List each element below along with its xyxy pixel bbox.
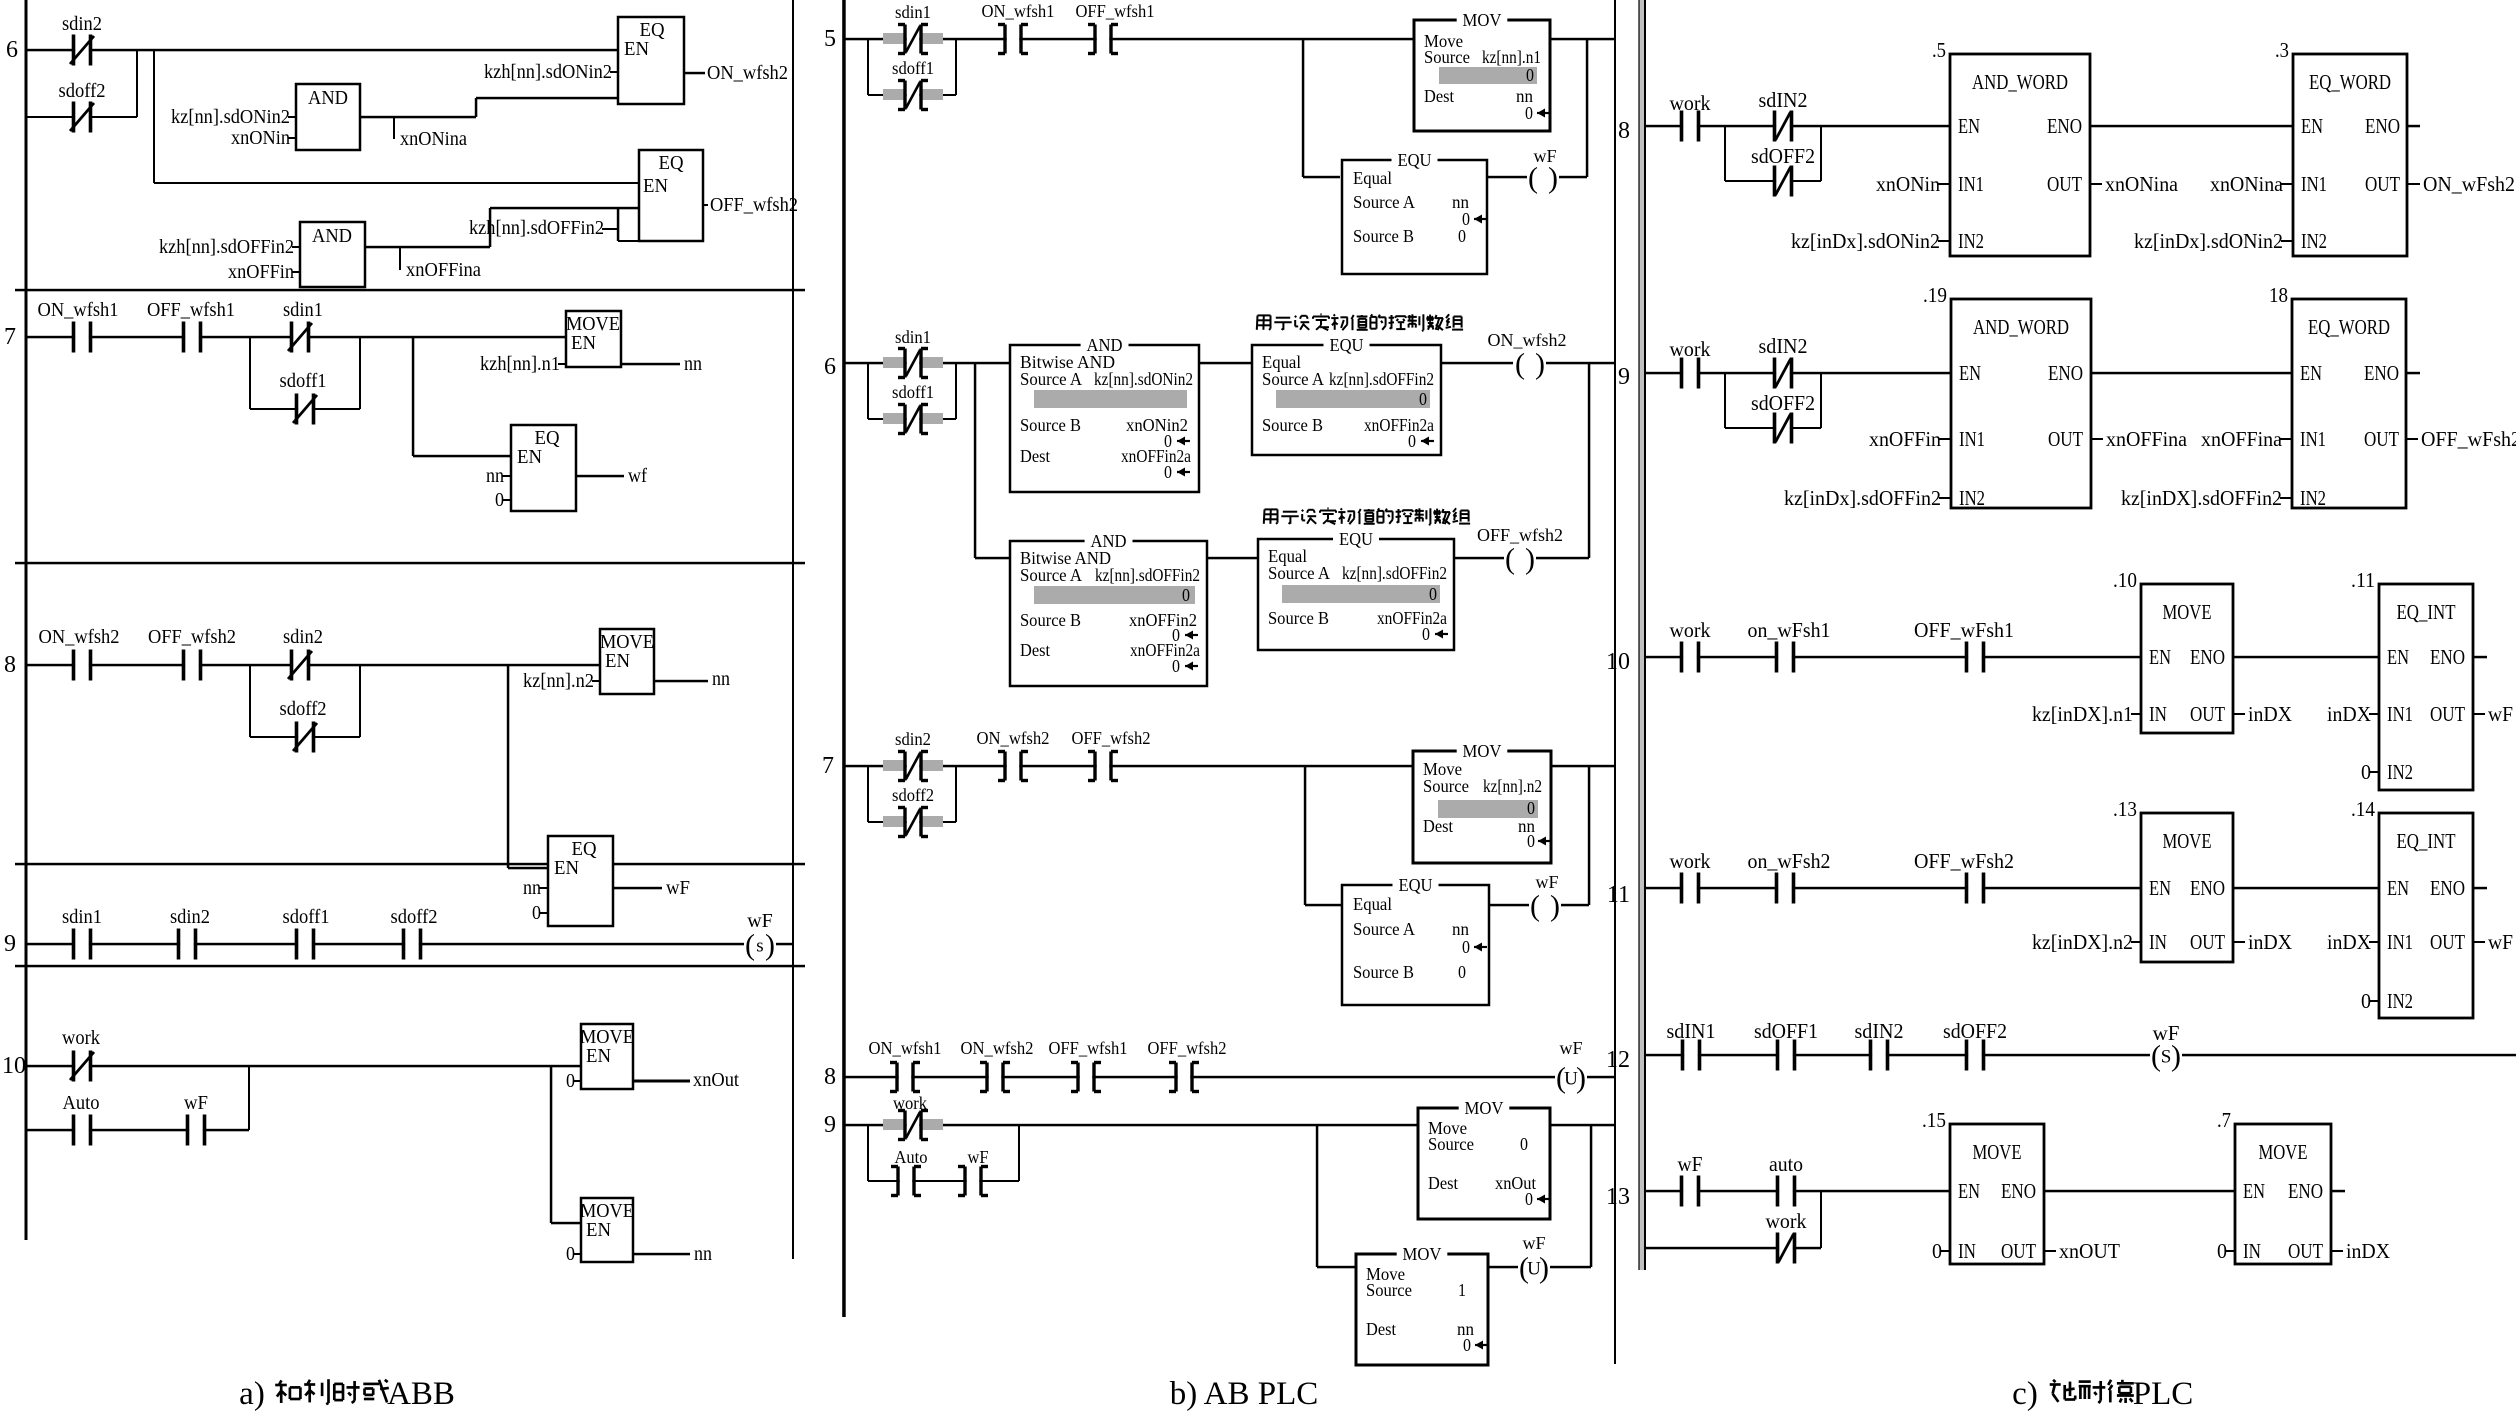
svg-text:OUT: OUT xyxy=(2430,930,2465,954)
svg-text:OUT: OUT xyxy=(2190,930,2225,954)
svg-text:Dest: Dest xyxy=(1020,640,1050,660)
svg-text:.11: .11 xyxy=(2351,568,2375,592)
svg-text:kz[inDX].n1: kz[inDX].n1 xyxy=(2032,702,2133,726)
svg-text:kz[inDX].sdOFFin2: kz[inDX].sdOFFin2 xyxy=(2121,486,2282,510)
svg-text:sdOFF1: sdOFF1 xyxy=(1754,1019,1818,1043)
svg-text:9: 9 xyxy=(824,1112,836,1138)
svg-text:a): a) xyxy=(239,1376,265,1411)
svg-text:U: U xyxy=(1527,1259,1541,1280)
svg-text:sdoff1: sdoff1 xyxy=(280,370,327,392)
svg-text:EN: EN xyxy=(586,1219,611,1241)
svg-text:9: 9 xyxy=(1618,364,1630,390)
svg-text:ON_wfsh1: ON_wfsh1 xyxy=(869,1038,942,1058)
svg-text:): ) xyxy=(1550,890,1560,923)
svg-text:Dest: Dest xyxy=(1424,86,1454,106)
svg-text:sdoff2: sdoff2 xyxy=(59,80,106,102)
svg-text:MOV: MOV xyxy=(1463,10,1502,30)
svg-text:(: ( xyxy=(1530,890,1540,923)
svg-text:): ) xyxy=(1535,348,1545,381)
svg-text:EN: EN xyxy=(2149,645,2171,669)
svg-text:wF: wF xyxy=(666,877,690,899)
svg-text:ON_wfsh1: ON_wfsh1 xyxy=(982,1,1055,21)
svg-text:sdin2: sdin2 xyxy=(283,626,323,648)
svg-text:xnOFFin2a: xnOFFin2a xyxy=(1130,640,1200,660)
svg-text:18: 18 xyxy=(2269,283,2288,307)
svg-text:(: ( xyxy=(1505,543,1515,576)
svg-text:wF: wF xyxy=(1533,146,1556,166)
svg-text:IN1: IN1 xyxy=(1958,172,1984,196)
svg-text:IN1: IN1 xyxy=(2300,427,2326,451)
svg-text:wF: wF xyxy=(968,1147,989,1167)
svg-text:EQ_INT: EQ_INT xyxy=(2397,600,2456,624)
svg-text:MOVE: MOVE xyxy=(2259,1140,2308,1164)
svg-text:Source A: Source A xyxy=(1020,369,1082,389)
svg-text:OUT: OUT xyxy=(2047,172,2082,196)
svg-text:0: 0 xyxy=(1525,103,1533,123)
svg-text:ENO: ENO xyxy=(2365,114,2400,138)
svg-text:nn: nn xyxy=(486,465,504,487)
svg-text:AND: AND xyxy=(312,225,352,247)
svg-text:OFF_wfsh2: OFF_wfsh2 xyxy=(1072,728,1151,748)
svg-text:1: 1 xyxy=(1458,1280,1466,1300)
svg-text:IN2: IN2 xyxy=(2387,760,2413,784)
svg-text:Dest: Dest xyxy=(1366,1319,1396,1339)
svg-text:ENO: ENO xyxy=(2364,361,2399,385)
svg-text:kz[nn].n2: kz[nn].n2 xyxy=(1483,776,1542,796)
svg-text:OFF_wFsh2: OFF_wFsh2 xyxy=(1914,849,2014,873)
svg-text:wF: wF xyxy=(1559,1038,1582,1058)
svg-text:sdin1: sdin1 xyxy=(62,906,102,928)
svg-text:ENO: ENO xyxy=(2047,114,2082,138)
svg-text:(: ( xyxy=(745,929,755,962)
svg-text:inDX: inDX xyxy=(2248,702,2292,726)
svg-text:9: 9 xyxy=(4,931,16,957)
svg-text:Source A: Source A xyxy=(1268,563,1330,583)
svg-text:Source B: Source B xyxy=(1020,610,1081,630)
svg-text:sdoff1: sdoff1 xyxy=(892,58,934,78)
svg-text:Equal: Equal xyxy=(1353,168,1392,188)
svg-text:sdIN2: sdIN2 xyxy=(1759,88,1808,112)
svg-text:ENO: ENO xyxy=(2430,876,2465,900)
svg-text:wf: wf xyxy=(628,465,647,487)
svg-text:IN: IN xyxy=(2149,702,2167,726)
svg-text:IN: IN xyxy=(2243,1239,2261,1263)
svg-text:OUT: OUT xyxy=(2365,172,2400,196)
svg-text:wF: wF xyxy=(747,910,773,932)
svg-text:EN: EN xyxy=(1958,114,1980,138)
svg-text:kz[inDx].sdOFFin2: kz[inDx].sdOFFin2 xyxy=(1784,486,1941,510)
svg-text:0: 0 xyxy=(1462,937,1470,957)
svg-text:Auto: Auto xyxy=(895,1147,928,1167)
svg-text:PLC: PLC xyxy=(2133,1376,2194,1411)
svg-text:10: 10 xyxy=(2,1053,26,1079)
svg-text:xnONina: xnONina xyxy=(2105,172,2179,196)
svg-text:0: 0 xyxy=(1525,1189,1533,1209)
svg-text:EN: EN xyxy=(2301,114,2323,138)
svg-text:xnOFFin2a: xnOFFin2a xyxy=(1364,415,1434,435)
svg-text:0: 0 xyxy=(1527,831,1535,851)
svg-text:kzh[nn].n1: kzh[nn].n1 xyxy=(480,353,560,375)
svg-text:sdin2: sdin2 xyxy=(62,13,102,35)
svg-text:xnOFFina: xnOFFina xyxy=(2201,427,2283,451)
svg-text:0: 0 xyxy=(1172,656,1180,676)
svg-text:ON_wfsh2: ON_wfsh2 xyxy=(1488,330,1567,350)
svg-text:kz[nn].sdOFFin2: kz[nn].sdOFFin2 xyxy=(1095,565,1200,585)
svg-text:0: 0 xyxy=(1463,1335,1471,1355)
svg-text:IN1: IN1 xyxy=(2301,172,2327,196)
svg-text:xnOFFin: xnOFFin xyxy=(228,261,294,283)
svg-text:sdIN2: sdIN2 xyxy=(1759,334,1808,358)
svg-text:Source B: Source B xyxy=(1262,415,1323,435)
svg-text:EN: EN xyxy=(624,38,649,60)
svg-text:ENO: ENO xyxy=(2288,1179,2323,1203)
svg-text:auto: auto xyxy=(1769,1152,1803,1176)
svg-text:nn: nn xyxy=(694,1243,712,1265)
svg-text:.14: .14 xyxy=(2351,797,2375,821)
svg-text:on_wFsh2: on_wFsh2 xyxy=(1748,849,1831,873)
svg-text:xnONina: xnONina xyxy=(400,128,467,150)
svg-text:kz[inDx].sdONin2: kz[inDx].sdONin2 xyxy=(2134,229,2283,253)
svg-text:6: 6 xyxy=(6,37,18,63)
svg-text:wF: wF xyxy=(2488,930,2513,954)
svg-text:Dest: Dest xyxy=(1020,446,1050,466)
svg-text:work: work xyxy=(1670,337,1711,361)
svg-text:EQ_WORD: EQ_WORD xyxy=(2308,315,2390,339)
svg-text:EN: EN xyxy=(2149,876,2171,900)
svg-text:OFF_wfsh2: OFF_wfsh2 xyxy=(148,626,236,648)
svg-text:sdIN2: sdIN2 xyxy=(1855,1019,1904,1043)
svg-text:ON_wfsh2: ON_wfsh2 xyxy=(977,728,1050,748)
svg-text:nn: nn xyxy=(712,668,730,690)
svg-text:.15: .15 xyxy=(1922,1108,1946,1132)
svg-text:ENO: ENO xyxy=(2001,1179,2036,1203)
svg-text:EN: EN xyxy=(1958,1179,1980,1203)
svg-text:Source: Source xyxy=(1366,1280,1412,1300)
svg-text:xnONin: xnONin xyxy=(231,127,290,149)
svg-text:): ) xyxy=(1525,543,1535,576)
svg-text:Source B: Source B xyxy=(1353,962,1414,982)
svg-text:OFF_wFsh1: OFF_wFsh1 xyxy=(1914,618,2014,642)
svg-text:5: 5 xyxy=(824,26,836,52)
svg-text:inDX: inDX xyxy=(2248,930,2292,954)
svg-text:xnOut: xnOut xyxy=(693,1069,739,1091)
svg-text:OFF_wfsh2: OFF_wfsh2 xyxy=(1148,1038,1227,1058)
svg-text:IN2: IN2 xyxy=(1959,486,1985,510)
svg-text:sdoff2: sdoff2 xyxy=(391,906,438,928)
svg-text:xnOFFina: xnOFFina xyxy=(406,259,481,281)
svg-text:xnOFFin: xnOFFin xyxy=(1869,427,1941,451)
svg-text:kz[nn].sdOFFin2: kz[nn].sdOFFin2 xyxy=(1342,563,1447,583)
svg-text:Source: Source xyxy=(1423,776,1469,796)
svg-text:sdOFF2: sdOFF2 xyxy=(1943,1019,2007,1043)
svg-text:xnOFFin2a: xnOFFin2a xyxy=(1377,608,1447,628)
svg-text:0: 0 xyxy=(1526,65,1534,85)
svg-text:sdoff2: sdoff2 xyxy=(280,698,327,720)
svg-text:EN: EN xyxy=(2387,645,2409,669)
svg-text:work: work xyxy=(1670,618,1711,642)
svg-text:xnOFFina: xnOFFina xyxy=(2106,427,2188,451)
svg-text:EQU: EQU xyxy=(1398,150,1432,170)
svg-text:on_wFsh1: on_wFsh1 xyxy=(1748,618,1831,642)
svg-text:OFF_wfsh1: OFF_wfsh1 xyxy=(1049,1038,1128,1058)
svg-text:kz[nn].n2: kz[nn].n2 xyxy=(523,670,594,692)
svg-text:EN: EN xyxy=(605,650,630,672)
svg-text:work: work xyxy=(893,1093,927,1113)
svg-text:EQU: EQU xyxy=(1330,335,1364,355)
svg-text:8: 8 xyxy=(4,652,16,678)
svg-text:sdIN1: sdIN1 xyxy=(1667,1019,1716,1043)
svg-text:sdoff1: sdoff1 xyxy=(283,906,330,928)
svg-text:Source: Source xyxy=(1428,1134,1474,1154)
svg-text:Auto: Auto xyxy=(63,1092,100,1114)
svg-text:ON_wfsh1: ON_wfsh1 xyxy=(38,299,119,321)
svg-text:EN: EN xyxy=(1959,361,1981,385)
svg-text:8: 8 xyxy=(1618,118,1630,144)
svg-text:OFF_wfsh1: OFF_wfsh1 xyxy=(147,299,235,321)
svg-text:OUT: OUT xyxy=(2190,702,2225,726)
svg-text:b) AB PLC: b) AB PLC xyxy=(1170,1376,1319,1411)
svg-text:nn: nn xyxy=(684,353,702,375)
svg-text:EQU: EQU xyxy=(1399,875,1433,895)
svg-text:11: 11 xyxy=(1607,882,1630,908)
svg-text:kz[inDx].sdONin2: kz[inDx].sdONin2 xyxy=(1791,229,1940,253)
svg-text:MOVE: MOVE xyxy=(2163,829,2212,853)
svg-text:0: 0 xyxy=(1419,389,1427,409)
svg-text:EN: EN xyxy=(643,175,668,197)
svg-text:kz[inDX].n2: kz[inDX].n2 xyxy=(2032,930,2133,954)
svg-text:(: ( xyxy=(1515,348,1525,381)
svg-text:EN: EN xyxy=(517,446,542,468)
svg-text:IN: IN xyxy=(1958,1239,1976,1263)
svg-text:EQU: EQU xyxy=(1339,529,1373,549)
svg-text:ABB: ABB xyxy=(387,1376,455,1411)
svg-text:0: 0 xyxy=(1182,585,1190,605)
svg-text:xnOUT: xnOUT xyxy=(2059,1239,2120,1263)
svg-text:EQ: EQ xyxy=(659,152,685,174)
svg-text:.3: .3 xyxy=(2275,38,2289,62)
svg-text:ON_wfsh2: ON_wfsh2 xyxy=(39,626,120,648)
svg-text:EN: EN xyxy=(571,332,596,354)
svg-text:IN: IN xyxy=(2149,930,2167,954)
svg-text:kzh[nn].sdOFFin2: kzh[nn].sdOFFin2 xyxy=(159,236,294,258)
svg-text:OFF_wfsh1: OFF_wfsh1 xyxy=(1076,1,1155,21)
svg-text:0: 0 xyxy=(1458,226,1466,246)
svg-text:Dest: Dest xyxy=(1423,816,1453,836)
svg-text:EN: EN xyxy=(586,1045,611,1067)
svg-text:wF: wF xyxy=(2488,702,2513,726)
svg-text:ON_wFsh2: ON_wFsh2 xyxy=(2423,172,2515,196)
svg-text:MOV: MOV xyxy=(1403,1244,1442,1264)
svg-text:inDX: inDX xyxy=(2327,702,2371,726)
svg-text:U: U xyxy=(1564,1069,1578,1090)
svg-text:Source A: Source A xyxy=(1262,369,1324,389)
svg-text:work: work xyxy=(1766,1209,1807,1233)
svg-text:OUT: OUT xyxy=(2001,1239,2036,1263)
svg-text:0: 0 xyxy=(1422,624,1430,644)
svg-text:Source B: Source B xyxy=(1353,226,1414,246)
svg-text:sdOFF2: sdOFF2 xyxy=(1751,391,1815,415)
svg-text:ENO: ENO xyxy=(2048,361,2083,385)
svg-text:Source A: Source A xyxy=(1020,565,1082,585)
svg-text:13: 13 xyxy=(1606,1184,1630,1210)
svg-text:MOV: MOV xyxy=(1465,1098,1504,1118)
svg-text:0: 0 xyxy=(1429,584,1437,604)
svg-text:7: 7 xyxy=(822,753,834,779)
svg-text:sdin2: sdin2 xyxy=(170,906,210,928)
svg-text:0: 0 xyxy=(1520,1134,1528,1154)
svg-text:ON_wfsh2: ON_wfsh2 xyxy=(707,62,788,84)
svg-text:EQ_INT: EQ_INT xyxy=(2397,829,2456,853)
svg-text:xnONin2: xnONin2 xyxy=(1126,415,1188,435)
svg-text:sdoff2: sdoff2 xyxy=(892,785,934,805)
svg-text:IN2: IN2 xyxy=(2301,229,2327,253)
svg-text:work: work xyxy=(62,1027,100,1049)
svg-text:nn: nn xyxy=(523,877,541,899)
svg-text:OFF_wfsh2: OFF_wfsh2 xyxy=(710,194,798,216)
svg-text:IN1: IN1 xyxy=(1959,427,1985,451)
svg-text:OFF_wFsh2: OFF_wFsh2 xyxy=(2421,427,2516,451)
svg-text:IN1: IN1 xyxy=(2387,702,2413,726)
svg-text:AND: AND xyxy=(308,87,348,109)
svg-text:work: work xyxy=(1670,91,1711,115)
svg-text:Source B: Source B xyxy=(1268,608,1329,628)
svg-text:MOVE: MOVE xyxy=(1973,1140,2022,1164)
svg-text:sdin1: sdin1 xyxy=(283,299,323,321)
svg-text:s: s xyxy=(756,936,763,957)
svg-text:OUT: OUT xyxy=(2430,702,2465,726)
svg-text:): ) xyxy=(1548,162,1558,195)
svg-text:.7: .7 xyxy=(2217,1108,2231,1132)
svg-text:Equal: Equal xyxy=(1353,894,1392,914)
svg-text:kz[nn].sdONin2: kz[nn].sdONin2 xyxy=(1094,369,1193,389)
svg-text:wF: wF xyxy=(1678,1152,1703,1176)
svg-text:12: 12 xyxy=(1606,1047,1630,1073)
svg-text:0: 0 xyxy=(1164,462,1172,482)
svg-text:Dest: Dest xyxy=(1428,1173,1458,1193)
svg-text:0: 0 xyxy=(1408,431,1416,451)
svg-text:AND_WORD: AND_WORD xyxy=(1972,70,2068,94)
svg-text:Source: Source xyxy=(1424,47,1470,67)
svg-text:S: S xyxy=(2161,1047,2172,1068)
svg-text:AND_WORD: AND_WORD xyxy=(1973,315,2069,339)
svg-text:sdin1: sdin1 xyxy=(895,327,931,347)
svg-text:inDX: inDX xyxy=(2327,930,2371,954)
svg-text:IN2: IN2 xyxy=(1958,229,1984,253)
svg-text:7: 7 xyxy=(4,324,16,350)
svg-text:xnONina: xnONina xyxy=(2210,172,2284,196)
svg-text:.5: .5 xyxy=(1932,38,1946,62)
svg-text:sdin1: sdin1 xyxy=(895,2,931,22)
svg-text:ENO: ENO xyxy=(2190,645,2225,669)
svg-text:OUT: OUT xyxy=(2288,1239,2323,1263)
svg-text:inDX: inDX xyxy=(2346,1239,2390,1263)
svg-text:xnONin: xnONin xyxy=(1876,172,1940,196)
svg-text:kzh[nn].sdONin2: kzh[nn].sdONin2 xyxy=(484,61,612,83)
svg-text:OFF_wfsh2: OFF_wfsh2 xyxy=(1477,525,1563,545)
svg-text:nn: nn xyxy=(1452,919,1469,939)
svg-text:EN: EN xyxy=(554,857,579,879)
svg-text:ENO: ENO xyxy=(2190,876,2225,900)
svg-text:0: 0 xyxy=(1527,798,1535,818)
svg-text:(: ( xyxy=(1528,162,1538,195)
svg-text:.13: .13 xyxy=(2113,797,2137,821)
svg-text:OUT: OUT xyxy=(2364,427,2399,451)
svg-text:8: 8 xyxy=(824,1064,836,1090)
svg-text:xnOFFin2: xnOFFin2 xyxy=(1129,610,1197,630)
svg-text:sdoff1: sdoff1 xyxy=(892,382,934,402)
svg-text:Source A: Source A xyxy=(1353,192,1415,212)
svg-text:10: 10 xyxy=(1606,649,1630,675)
svg-text:EN: EN xyxy=(2300,361,2322,385)
svg-text:wF: wF xyxy=(1522,1233,1545,1253)
svg-text:MOV: MOV xyxy=(1463,741,1502,761)
svg-text:.19: .19 xyxy=(1923,283,1947,307)
svg-text:IN2: IN2 xyxy=(2300,486,2326,510)
svg-text:sdOFF2: sdOFF2 xyxy=(1751,144,1815,168)
svg-text:xnOFFin2a: xnOFFin2a xyxy=(1121,446,1191,466)
svg-text:IN2: IN2 xyxy=(2387,989,2413,1013)
svg-text:c): c) xyxy=(2012,1376,2038,1411)
svg-text:.10: .10 xyxy=(2113,568,2137,592)
svg-text:Source A: Source A xyxy=(1353,919,1415,939)
svg-text:kz[nn].sdONin2: kz[nn].sdONin2 xyxy=(171,106,290,128)
svg-text:EN: EN xyxy=(2387,876,2409,900)
svg-text:EN: EN xyxy=(2243,1179,2265,1203)
svg-text:kz[nn].n1: kz[nn].n1 xyxy=(1482,47,1541,67)
svg-text:wF: wF xyxy=(2153,1021,2180,1045)
svg-text:OUT: OUT xyxy=(2048,427,2083,451)
svg-text:MOVE: MOVE xyxy=(2163,600,2212,624)
svg-text:EQ_WORD: EQ_WORD xyxy=(2309,70,2391,94)
svg-text:ON_wfsh2: ON_wfsh2 xyxy=(961,1038,1034,1058)
svg-text:ENO: ENO xyxy=(2430,645,2465,669)
svg-text:6: 6 xyxy=(824,354,836,380)
svg-text:work: work xyxy=(1670,849,1711,873)
svg-text:wF: wF xyxy=(1535,872,1558,892)
svg-text:wF: wF xyxy=(184,1092,208,1114)
svg-text:Source B: Source B xyxy=(1020,415,1081,435)
svg-text:kz[nn].sdOFFin2: kz[nn].sdOFFin2 xyxy=(1329,369,1434,389)
svg-text:IN1: IN1 xyxy=(2387,930,2413,954)
svg-text:sdin2: sdin2 xyxy=(895,729,931,749)
svg-text:): ) xyxy=(765,929,775,962)
svg-text:0: 0 xyxy=(1458,962,1466,982)
